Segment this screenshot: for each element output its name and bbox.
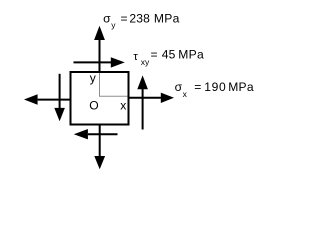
coordinate axes (y up, x right) bbox=[100, 73, 128, 96]
svg-text:y: y bbox=[90, 71, 97, 85]
stress element square bbox=[71, 72, 129, 125]
svg-text:MPa: MPa bbox=[228, 80, 254, 94]
svg-text:=: = bbox=[194, 80, 201, 94]
tau top shear arrow (right) bbox=[74, 61, 112, 63]
svg-text:x: x bbox=[183, 89, 188, 99]
sigma-y top arrow (up) bbox=[99, 40, 101, 72]
svg-text:σ: σ bbox=[103, 12, 111, 26]
svg-text:238: 238 bbox=[129, 12, 150, 26]
svg-text:45: 45 bbox=[162, 48, 176, 62]
sigma-x right arrow (right) bbox=[129, 97, 162, 99]
sigma-x left arrow (left) bbox=[38, 99, 71, 101]
svg-text:MPa: MPa bbox=[178, 48, 204, 62]
svg-text:x: x bbox=[120, 99, 126, 113]
svg-text:O: O bbox=[89, 99, 98, 113]
svg-text:MPa: MPa bbox=[154, 12, 180, 26]
svg-text:=: = bbox=[121, 12, 128, 26]
tau bottom shear arrow (left) bbox=[88, 133, 118, 135]
tau left shear arrow (down) bbox=[59, 74, 61, 109]
svg-text:190: 190 bbox=[204, 80, 226, 94]
svg-text:τ: τ bbox=[133, 51, 138, 63]
svg-text:xy: xy bbox=[141, 57, 150, 67]
svg-text:=: = bbox=[151, 48, 158, 62]
svg-text:σ: σ bbox=[175, 80, 183, 94]
sigma-y bottom arrow (down) bbox=[99, 126, 101, 157]
tau right shear arrow (up) bbox=[142, 89, 144, 130]
svg-text:y: y bbox=[111, 20, 116, 30]
